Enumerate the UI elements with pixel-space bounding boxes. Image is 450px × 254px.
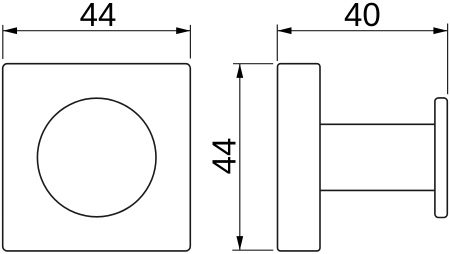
arrowhead dim40 right bbox=[433, 27, 447, 34]
arrowhead dim44 side bottom bbox=[236, 236, 243, 250]
svg-text:44: 44 bbox=[206, 138, 243, 175]
dim 44 (side) top extension line bbox=[233, 63, 273, 65]
dim 40 left extension line bbox=[276, 25, 278, 62]
arrowhead dim40 left bbox=[277, 27, 291, 34]
dim 40 dimension line bbox=[277, 30, 447, 32]
arrowhead dim44 front right bbox=[176, 27, 190, 34]
side view: end-cap flange bbox=[435, 98, 447, 218]
arrowhead dim44 side top bbox=[236, 64, 243, 78]
front view: square plate outline bbox=[3, 64, 191, 251]
arrowhead dim44 front left bbox=[3, 27, 17, 34]
dim 44 (front) dimension line bbox=[3, 30, 190, 32]
dim 44 (side) bottom extension line bbox=[232, 249, 273, 251]
side view: stem bottom line bbox=[320, 189, 435, 191]
dim 44 (front) right extension line bbox=[189, 25, 191, 59]
side view: wall plate bbox=[278, 64, 321, 251]
svg-text:40: 40 bbox=[344, 0, 381, 33]
dim 44 (front) left extension line bbox=[2, 25, 4, 59]
dim 44 (side) dimension line bbox=[239, 64, 241, 250]
front view: circular end-cap face bbox=[37, 98, 156, 217]
dim 40 right extension line bbox=[447, 24, 449, 95]
svg-text:44: 44 bbox=[80, 0, 117, 33]
side view: stem top line bbox=[320, 123, 435, 125]
